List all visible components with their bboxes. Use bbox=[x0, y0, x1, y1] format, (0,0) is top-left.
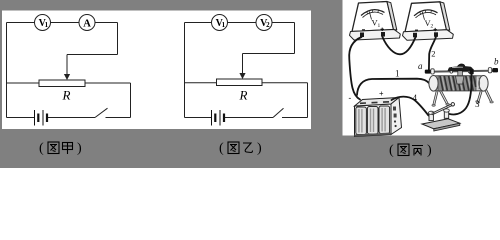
wire: mid horizontal to wiper bbox=[243, 53, 295, 55]
wire: wiper vertical bbox=[242, 54, 244, 75]
wire: left vertical bbox=[6, 23, 8, 118]
svg-text:4: 4 bbox=[413, 93, 418, 103]
svg-text:2: 2 bbox=[431, 48, 435, 58]
svg-text:): ) bbox=[257, 141, 262, 156]
rheostat (photo): support legs bbox=[432, 90, 493, 107]
wire 2: V2+ to terminal a bbox=[429, 37, 436, 71]
wire: rheostat left terminal bbox=[185, 82, 217, 84]
switch (circuit 1) bbox=[95, 108, 108, 117]
svg-text:1: 1 bbox=[45, 21, 49, 29]
rheostat body tube bbox=[429, 76, 488, 92]
wire V1+ to V2- bbox=[383, 37, 416, 55]
rheostat terminal a (black) bbox=[425, 70, 431, 74]
svg-text:): ) bbox=[77, 141, 82, 156]
wire: rheostat right terminal bbox=[262, 82, 308, 84]
wire: rheostat left terminal bbox=[7, 82, 40, 84]
wire: right upper vertical bbox=[294, 23, 296, 54]
svg-text:(: ( bbox=[39, 141, 44, 156]
svg-text:3: 3 bbox=[475, 99, 480, 109]
wire: left vertical bbox=[184, 23, 186, 118]
wire: bottom left segment bbox=[7, 117, 35, 119]
voltmeter V2 (photo) bbox=[403, 2, 454, 41]
rheostat slider knob bbox=[448, 64, 473, 77]
svg-text:+: + bbox=[379, 90, 384, 99]
panel background left (schematics) bbox=[2, 11, 311, 130]
rheostat R (circuit 1) bbox=[39, 80, 85, 87]
svg-text:a: a bbox=[418, 61, 423, 71]
binding post at b bbox=[488, 68, 491, 73]
slider wire connector bbox=[469, 69, 473, 75]
battery (circuit 2) bbox=[212, 110, 225, 126]
svg-text:): ) bbox=[427, 143, 432, 158]
svg-text:1: 1 bbox=[378, 23, 381, 29]
voltmeter V1 (circuit 1) bbox=[35, 15, 51, 31]
svg-text:A: A bbox=[83, 18, 91, 29]
svg-text:R: R bbox=[62, 87, 71, 102]
wire: right lower vertical bbox=[130, 83, 132, 118]
battery pack (photo) bbox=[349, 90, 402, 137]
wire: mid horizontal to wiper bbox=[67, 54, 118, 56]
wire: top horizontal bbox=[7, 22, 118, 24]
wire: right lower vertical bbox=[307, 83, 309, 118]
wire: bottom middle segment bbox=[47, 117, 95, 119]
panel background right (photo) bbox=[343, 0, 500, 136]
svg-text:(: ( bbox=[389, 143, 394, 158]
wire V1- to battery - bbox=[349, 37, 361, 100]
rheostat terminal b (black) bbox=[492, 68, 498, 72]
caption 图乙 bbox=[219, 141, 262, 156]
svg-text:2: 2 bbox=[431, 23, 434, 29]
wire 1: battery - to rheostat body bbox=[357, 79, 430, 95]
rheostat (photo): rail bbox=[425, 71, 498, 72]
caption 图丙 bbox=[389, 143, 432, 158]
voltmeter V1 (circuit 2) bbox=[212, 15, 228, 31]
wire: wiper vertical bbox=[66, 55, 68, 76]
wire 3: switch to slider bbox=[450, 75, 472, 115]
binding post at a bbox=[431, 69, 434, 74]
svg-text:1: 1 bbox=[395, 69, 400, 79]
switch (photo) bbox=[422, 103, 460, 131]
svg-text:b: b bbox=[494, 57, 499, 67]
svg-text:2: 2 bbox=[266, 21, 270, 29]
svg-text:R: R bbox=[239, 87, 248, 102]
rheostat R (circuit 2) bbox=[217, 79, 263, 86]
wire: bottom middle segment bbox=[224, 117, 273, 119]
wiper arrowhead circuit 2 bbox=[239, 73, 245, 79]
ammeter A (circuit 1) bbox=[79, 15, 95, 31]
wire: bottom right segment bbox=[282, 117, 308, 119]
battery (circuit 1) bbox=[35, 110, 48, 126]
svg-text:1: 1 bbox=[222, 21, 226, 29]
wire: top horizontal bbox=[185, 22, 295, 24]
voltmeter V2 (circuit 2) bbox=[256, 15, 272, 31]
wire: bottom right segment bbox=[106, 117, 131, 119]
switch (circuit 2) bbox=[273, 108, 284, 117]
wiper arrowhead circuit 1 bbox=[64, 74, 70, 80]
wire: right upper vertical bbox=[117, 23, 119, 55]
voltmeter V1 (photo) bbox=[350, 2, 401, 41]
wire: bottom left segment bbox=[185, 117, 212, 119]
caption 图甲 bbox=[39, 141, 82, 156]
svg-text:(: ( bbox=[219, 141, 224, 156]
wire 4: battery + to switch bbox=[392, 97, 429, 116]
slider stem foot bbox=[456, 76, 465, 84]
wire: rheostat right terminal bbox=[85, 82, 131, 84]
svg-text:-: - bbox=[349, 94, 352, 103]
